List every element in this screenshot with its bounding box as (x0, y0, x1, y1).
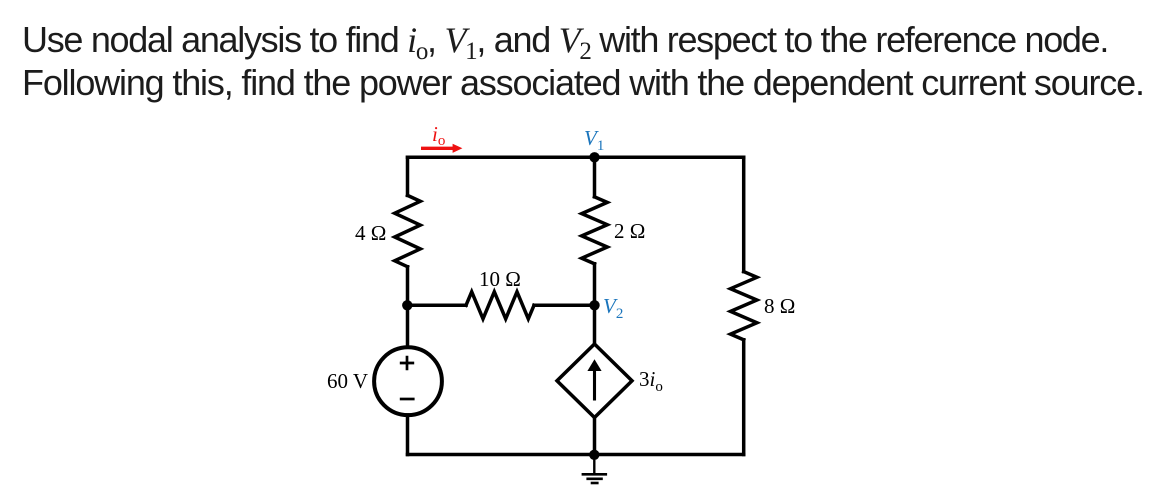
wire bottom (408, 453, 744, 457)
resistor 8ohm (731, 272, 757, 340)
node label V2 (603, 294, 623, 322)
svg-text:V2: V2 (603, 294, 623, 322)
wire right upper (742, 157, 746, 271)
wire left upper (406, 157, 410, 195)
value label 8 ohm (764, 294, 795, 318)
wire left lower (406, 415, 410, 455)
svg-text:2 Ω: 2 Ω (614, 219, 645, 243)
value label 3io (639, 367, 663, 395)
wire top (408, 156, 744, 160)
value label 10 ohm (479, 267, 521, 291)
resistor 4ohm (395, 195, 421, 266)
svg-text:8 Ω: 8 Ω (764, 294, 795, 318)
wire right lower (742, 340, 746, 455)
heading text (22, 18, 1144, 104)
resistor 10ohm (466, 292, 534, 319)
wire middle upper (593, 157, 597, 197)
current label io (red) (432, 122, 445, 149)
wire left middle (406, 267, 410, 346)
svg-text:4 Ω: 4 Ω (355, 221, 386, 245)
node V2 (589, 300, 599, 310)
value label 4 ohm (355, 221, 386, 245)
svg-text:io: io (432, 122, 445, 149)
node label V1 (584, 126, 604, 154)
ground (582, 455, 608, 483)
svg-text:10 Ω: 10 Ω (479, 267, 521, 291)
wire 10ohm right segment (534, 304, 595, 308)
resistor 2ohm (582, 197, 608, 264)
svg-text:V1: V1 (584, 126, 604, 154)
value label 60 V (327, 369, 368, 393)
svg-text:60 V: 60 V (327, 369, 368, 393)
svg-text:3io: 3io (639, 367, 663, 395)
current arrow io (red) (421, 144, 462, 153)
wire 10ohm left segment (408, 304, 467, 308)
dependent current source 3io (diamond) (557, 344, 632, 418)
node junction left (402, 300, 412, 310)
value label 2 ohm (614, 219, 645, 243)
voltage source 60V (374, 347, 442, 415)
node ground junction (589, 450, 599, 460)
wire middle between 2ohm and V2 node (593, 264, 597, 344)
node V1 (589, 152, 599, 162)
wire below diamond (593, 418, 597, 455)
